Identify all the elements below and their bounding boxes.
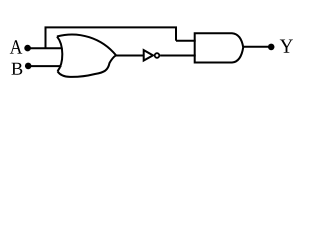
wire down vertical to AND top input [175, 27, 177, 40]
or-gate U1 back arc [57, 37, 62, 72]
wire OR output to inverter [115, 55, 144, 57]
wire branch vertical from A line up [45, 27, 47, 48]
wire top feedback horizontal [45, 26, 178, 28]
label B [11, 63, 22, 75]
wire AND output to Y [243, 46, 272, 48]
wire inverter to AND bottom input [160, 55, 196, 57]
node Y [268, 44, 275, 51]
wire B input to OR gate [28, 65, 61, 67]
wire A input to OR gate [28, 47, 62, 49]
inverter U2 triangle [144, 50, 153, 60]
or-gate U1 top arc [57, 34, 116, 55]
or-gate U1 bottom arc [58, 55, 117, 77]
label A [10, 40, 23, 53]
and-gate U3 [195, 33, 244, 62]
inverter U2 bubble [155, 53, 160, 58]
node B [25, 63, 32, 70]
node A [24, 45, 31, 52]
label Y [280, 39, 293, 52]
wire AND top input horizontal [176, 40, 196, 42]
